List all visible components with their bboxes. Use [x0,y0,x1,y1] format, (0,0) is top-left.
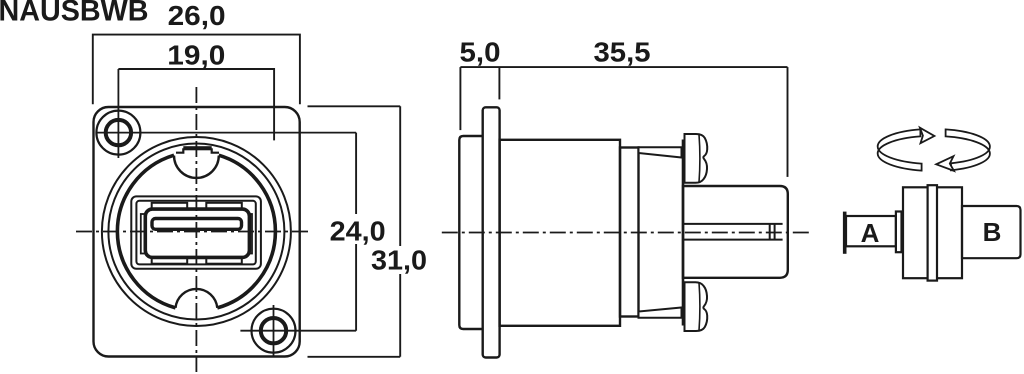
plug A body [846,216,896,246]
svg-text:35,5: 35,5 [594,37,651,68]
dim 19.0 bracket [118,69,274,140]
socket B body [962,206,1021,258]
svg-text:NAUSBWB: NAUSBWB [0,0,149,28]
dim 31.0 vertical line [399,106,401,356]
side bar left [141,214,146,254]
front bezel (left of flange) [459,136,484,329]
svg-text:26,0: 26,0 [168,0,226,31]
dim text 31,0 white mask [370,246,430,274]
svg-text:19,0: 19,0 [167,40,225,71]
screw head bottom [685,282,708,331]
USB-B slot bottom line [683,239,783,241]
latch bottom-left [152,256,188,264]
centerline horizontal front view [76,231,312,233]
dim right extension [787,67,789,177]
flange plate side [483,107,500,357]
screw head top [685,134,708,183]
centerline horizontal side view [442,232,812,234]
mounting hole bottom-right outer circle [252,309,296,353]
mounting hole top-left inner circle [106,120,131,145]
rotation ribbon right [946,129,990,170]
latch top-left [152,203,188,211]
screw head top face line [698,134,701,182]
mounting hole bottom-right inner circle [261,318,286,343]
mounting hole bottom-right crosshair vertical [273,305,275,357]
svg-text:B: B [983,217,1002,247]
USB-B slot tick 2 [774,224,776,240]
dim left extension [459,67,461,130]
svg-text:24,0: 24,0 [330,216,386,247]
mid circle [108,144,284,320]
USB-B body [683,186,788,278]
locking ring left arc [117,155,175,308]
locking ring right arc [217,155,275,308]
latch bottom-right [206,256,242,264]
middle body [903,187,962,278]
key tab wings [176,148,219,153]
USB shell [145,209,249,257]
rotation arrowhead top [920,128,935,144]
dim 26.0 bracket [93,35,300,105]
side bar right [247,214,252,254]
dim text 24,0 white mask [329,214,389,244]
main body [500,140,620,326]
step between A and middle [896,212,902,253]
screw shaft bottom [639,308,682,318]
rotation arrowhead bottom [936,156,954,171]
USB tongue slot [152,219,242,230]
USB housing inner rect [136,201,255,265]
dim middle extension [498,67,500,99]
mounting hole top-left crosshair vertical (19.0 extension) [117,69,119,158]
dim 31.0 bottom extension [308,356,401,358]
mounting hole top-left outer circle [96,111,140,155]
dim 5.0/35.5 line [460,66,787,68]
USB-B slot top line [683,223,783,225]
key tab bar [183,146,211,150]
screw head bottom face line [698,282,701,330]
middle rib [928,185,937,280]
svg-text:A: A [861,218,880,248]
svg-text:5,0: 5,0 [460,37,501,68]
cable end bar [843,212,847,254]
bottom notch semicircle [176,289,218,308]
step section [620,148,639,317]
top notch semicircle [174,156,219,178]
D-plate [94,107,300,357]
rotation ribbon left [878,129,922,170]
mounting hole top-left crosshair horizontal (24.0 extension) [96,132,356,134]
mounting hole bottom-right crosshair horizontal (24.0 extension) [240,330,356,332]
dim 31.0 top extension [308,105,401,107]
USB-B slot tick 1 [769,224,771,240]
outer circle [102,137,291,326]
latch top-right [206,203,242,211]
dim 24.0 vertical line [355,133,357,331]
centerline vertical front view [195,87,197,372]
svg-text:31,0: 31,0 [371,245,427,276]
rear housing edge [682,140,685,326]
screw shaft top [639,147,682,157]
USB housing outer rect [131,196,261,268]
